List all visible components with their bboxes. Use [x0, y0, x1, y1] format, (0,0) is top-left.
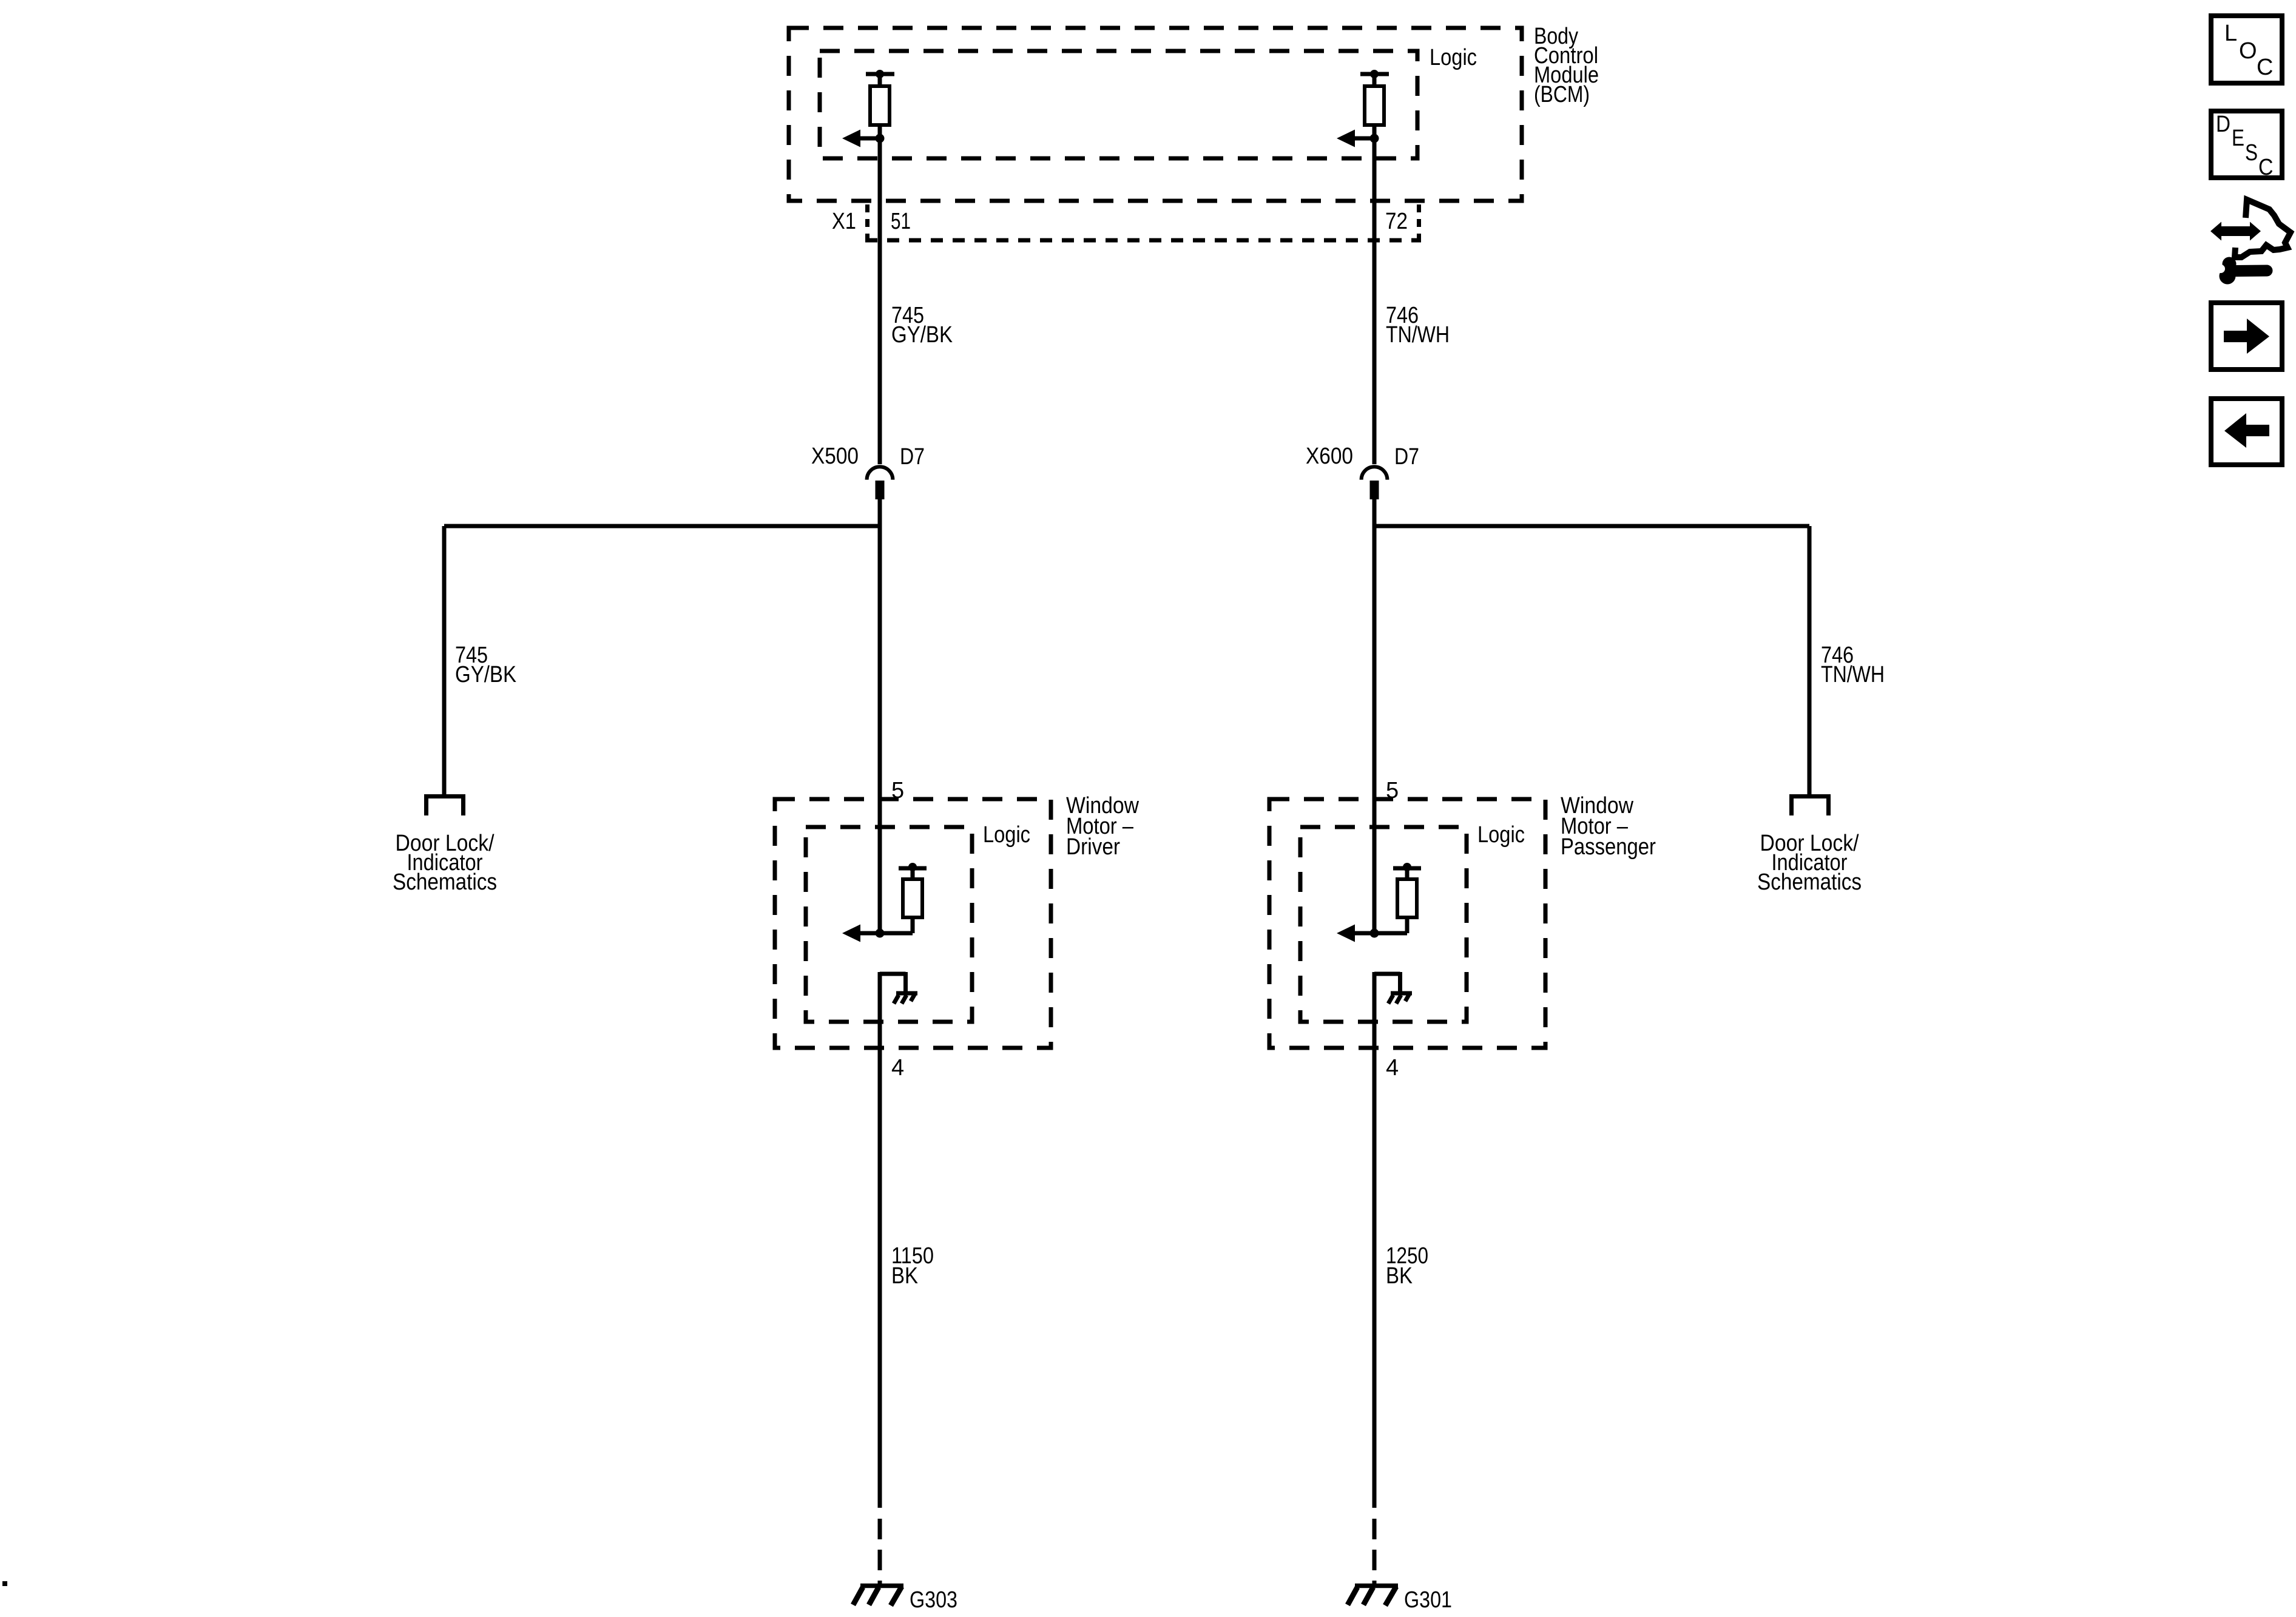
svg-text:TN/WH: TN/WH: [1821, 662, 1885, 687]
svg-text:Logic: Logic: [983, 822, 1030, 848]
svg-text:D: D: [2216, 112, 2230, 137]
svg-text:O: O: [2239, 38, 2257, 64]
svg-text:TN/WH: TN/WH: [1386, 322, 1450, 348]
svg-text:GY/BK: GY/BK: [455, 662, 516, 687]
svg-text:S: S: [2245, 140, 2258, 166]
svg-text:4: 4: [891, 1055, 904, 1081]
svg-text:G303: G303: [910, 1587, 957, 1613]
svg-text:C: C: [2258, 155, 2274, 180]
svg-text:C: C: [2257, 55, 2273, 80]
svg-text:Driver: Driver: [1066, 834, 1120, 860]
svg-text:Schematics: Schematics: [1757, 869, 1862, 895]
svg-text:E: E: [2232, 126, 2244, 151]
svg-text:Logic: Logic: [1430, 45, 1477, 70]
svg-text:GY/BK: GY/BK: [891, 322, 953, 348]
svg-text:X1: X1: [832, 209, 856, 234]
svg-text:X500: X500: [811, 444, 859, 469]
svg-text:BK: BK: [1386, 1263, 1413, 1289]
svg-text:72: 72: [1385, 209, 1408, 234]
svg-text:Logic: Logic: [1477, 822, 1525, 848]
svg-text:D7: D7: [1394, 444, 1419, 470]
svg-text:51: 51: [891, 209, 911, 234]
svg-text:4: 4: [1386, 1055, 1399, 1081]
svg-text:G301: G301: [1404, 1587, 1452, 1613]
svg-text:D7: D7: [900, 444, 925, 470]
svg-text:X600: X600: [1306, 444, 1353, 469]
svg-text:5: 5: [891, 778, 904, 803]
svg-text:Schematics: Schematics: [393, 869, 497, 895]
svg-text:BK: BK: [891, 1263, 918, 1289]
svg-text:Passenger: Passenger: [1561, 834, 1656, 860]
svg-text:5: 5: [1386, 778, 1399, 803]
svg-text:(BCM): (BCM): [1534, 82, 1590, 107]
svg-text:L: L: [2224, 21, 2237, 46]
